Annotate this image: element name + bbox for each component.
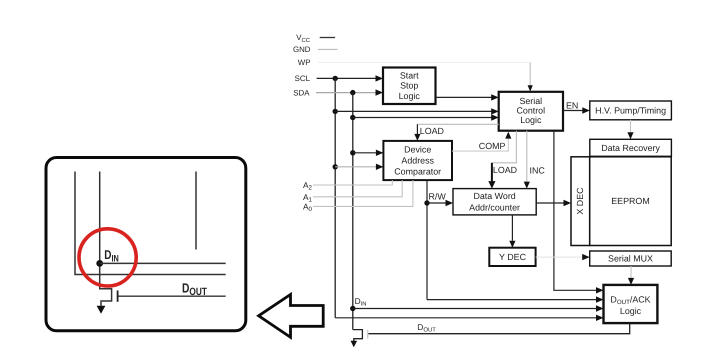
pin label A1 — [303, 192, 313, 204]
svg-text:Logic: Logic — [520, 115, 542, 125]
wire SCL to Serial Control Logic — [333, 108, 499, 114]
svg-text:COMP: COMP — [479, 141, 506, 151]
node R/W junction — [424, 200, 429, 205]
wire R/W vertical from Device Address Comparator — [426, 180, 428, 300]
svg-text:SDA: SDA — [293, 88, 310, 97]
inset label DIN — [104, 247, 119, 264]
box Y DEC — [489, 248, 535, 266]
wire Data Word counter to X DEC — [536, 200, 571, 206]
label R/W — [429, 191, 447, 201]
box Serial Control Logic — [499, 92, 563, 131]
wire SCL to Device Address Comparator — [333, 164, 384, 170]
svg-text:Logic: Logic — [399, 91, 421, 101]
box Start Stop Logic — [383, 68, 436, 105]
label LOAD upper — [420, 126, 444, 136]
inset rounded frame — [46, 158, 246, 331]
wire SCL bottom to DOUT/ACK Logic — [335, 315, 603, 321]
wire COMP Device Address Comparator to Serial Control — [452, 132, 511, 152]
wire SDA to Device Address Comparator — [350, 150, 383, 156]
wire EN Serial Control to HV Pump — [563, 107, 590, 113]
svg-text:R/W: R/W — [429, 191, 447, 201]
label DOUT — [417, 322, 436, 334]
wire A2 — [313, 180, 392, 185]
wire Start Stop Logic to Serial Control Logic — [436, 94, 499, 100]
inset wire DIN horizontal — [100, 262, 226, 264]
box X DEC — [571, 157, 590, 246]
svg-text:H.V. Pump/Timing: H.V. Pump/Timing — [595, 105, 666, 115]
pin label WP — [298, 58, 311, 67]
pin label SCL — [295, 74, 311, 83]
inset label DOUT — [182, 280, 207, 298]
wire DOUT from DOUT/ACK Logic — [368, 323, 630, 334]
label EN — [566, 100, 578, 110]
inset wire DOUT horizontal — [119, 295, 226, 297]
svg-text:WP: WP — [298, 58, 311, 67]
box H.V. Pump/Timing — [590, 101, 672, 120]
wire VCC stub — [320, 37, 335, 39]
wire INC Serial Control to Data Word counter — [524, 131, 530, 189]
svg-text:Data Word: Data Word — [473, 191, 515, 201]
inset wire SDA vertical with jog and ground arrow — [97, 172, 112, 314]
svg-text:X DEC: X DEC — [575, 187, 585, 215]
wire GND stub — [318, 48, 338, 50]
wire Serial Control to DOUT/ACK Logic — [554, 131, 604, 294]
svg-text:EEPROM: EEPROM — [611, 196, 649, 206]
label COMP — [479, 141, 506, 151]
inset DOUT coupling bar — [117, 291, 119, 302]
inset red highlight circle — [79, 229, 136, 286]
svg-text:Data Recovery: Data Recovery — [601, 143, 660, 153]
wire Data Word counter to Y DEC — [509, 215, 515, 248]
wire SCL lead — [317, 75, 383, 81]
pin label SDA — [293, 88, 310, 97]
inset wire SCL vertical and lower horizontal — [75, 172, 226, 275]
pin label VCC — [296, 33, 311, 44]
wire SCL bus vertical — [334, 78, 336, 317]
wire A1 — [313, 180, 402, 197]
wire LOAD Serial Control to Device Address Comparator — [414, 124, 498, 141]
node SDA junction — [350, 90, 355, 95]
box Serial MUX — [590, 251, 672, 266]
svg-text:Device: Device — [404, 144, 431, 154]
wire Y DEC to Serial MUX — [536, 254, 590, 260]
callout arrow pointing left — [259, 295, 324, 338]
wire LOAD Serial Control to Data Word counter — [488, 131, 516, 189]
svg-text:Addr/counter: Addr/counter — [469, 203, 520, 213]
svg-text:LOAD: LOAD — [493, 165, 517, 175]
svg-text:LOAD: LOAD — [420, 126, 444, 136]
box Device Address Comparator — [383, 141, 452, 180]
pin label A0 — [303, 201, 313, 213]
pin label A2 — [303, 180, 313, 192]
node DIN junction — [350, 306, 355, 311]
svg-text:SCL: SCL — [295, 74, 311, 83]
svg-text:Stop: Stop — [400, 81, 418, 91]
box EEPROM — [590, 157, 672, 246]
svg-text:Start: Start — [400, 70, 419, 80]
pin label GND — [293, 45, 311, 54]
svg-text:Y DEC: Y DEC — [499, 252, 527, 262]
svg-text:EN: EN — [566, 100, 578, 110]
wire HV Pump to Data Recovery — [627, 120, 633, 140]
wire DIN to DOUT/ACK Logic — [353, 305, 604, 311]
wire SDA jog to ground arrow — [351, 330, 363, 348]
node SCL junction — [333, 76, 338, 81]
wire R/W to DOUT/ACK Logic — [427, 296, 604, 302]
wire DOUT coupling bar — [367, 330, 369, 339]
svg-text:Serial MUX: Serial MUX — [608, 254, 653, 264]
label LOAD lower — [493, 165, 517, 175]
inset wire right vertical — [195, 172, 197, 250]
svg-text:GND: GND — [293, 45, 311, 54]
wire SDA to Serial Control Logic — [350, 114, 499, 120]
box DOUT/ACK Logic — [604, 285, 658, 323]
label DIN — [355, 296, 367, 308]
svg-text:INC: INC — [530, 165, 546, 175]
wire SDA bus vertical — [352, 93, 354, 330]
svg-text:Comparator: Comparator — [394, 166, 441, 176]
svg-text:Address: Address — [401, 155, 434, 165]
wire R/W to Data Word counter — [427, 200, 453, 206]
wire SDA lead — [316, 89, 383, 95]
svg-text:Logic: Logic — [620, 306, 642, 316]
svg-text:DOUT/ACK: DOUT/ACK — [610, 295, 650, 307]
inset node DIN junction — [96, 260, 103, 267]
box Data Recovery — [590, 139, 672, 156]
box Data Word Addr/counter — [453, 189, 536, 215]
label INC — [530, 165, 546, 175]
wire WP to Serial Control Logic top — [318, 62, 533, 91]
wire A0 — [313, 180, 413, 206]
wire Serial MUX to DOUT/ACK Logic — [628, 266, 634, 285]
